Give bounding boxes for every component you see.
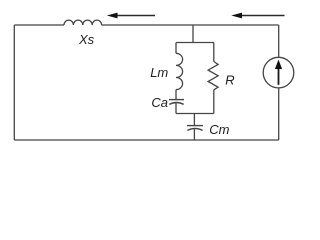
wire: left edge <box>13 25 15 140</box>
svg-text:Ca: Ca <box>151 95 168 110</box>
arrow current direction left (first) <box>107 13 155 19</box>
wire: left branch upper <box>175 43 177 54</box>
wire: between Lm and Ca <box>175 90 177 100</box>
wire: Cm stem lower <box>193 129 195 140</box>
capacitor Cm <box>187 126 203 131</box>
wire: middle branch stem <box>192 25 194 43</box>
wire: top left segment <box>14 24 64 26</box>
wire: right branch lower <box>213 90 215 114</box>
wire: below Ca <box>175 103 177 114</box>
wire: bottom bar of parallel section <box>176 113 214 115</box>
wire: bottom <box>14 139 278 141</box>
svg-text:Lm: Lm <box>150 65 168 80</box>
wire: top right segment <box>102 24 279 26</box>
inductor Lm <box>176 53 183 89</box>
wire: Cm stem upper <box>193 114 195 126</box>
capacitor Ca <box>169 100 184 105</box>
svg-text:Xs: Xs <box>78 32 95 47</box>
arrow current direction left (second) <box>231 13 284 19</box>
wire: right edge upper <box>278 25 280 57</box>
wire: right edge lower <box>278 88 280 140</box>
wire: top bar of parallel section <box>176 42 214 44</box>
resistor R <box>208 62 218 90</box>
svg-text:Cm: Cm <box>209 122 229 137</box>
wire: right branch upper <box>213 43 215 62</box>
svg-text:R: R <box>225 73 234 88</box>
inductor Xs <box>64 20 102 25</box>
current source I1 <box>263 57 294 88</box>
